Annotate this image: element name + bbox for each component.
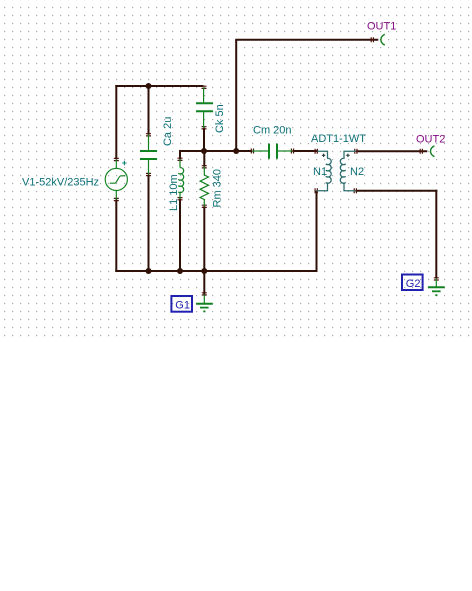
pin Cm right: [291, 149, 293, 154]
transformer winding N1: [316, 151, 331, 191]
wire Ca bottom: [148, 175, 150, 272]
svg-text:G1: G1: [175, 300, 190, 312]
wire Rm top: [203, 151, 205, 167]
pin G1: [202, 293, 207, 295]
ground G2: [428, 279, 445, 296]
wire Ca top: [148, 86, 150, 135]
wire N2 to OUT2: [356, 150, 427, 152]
pin Ca bottom: [146, 173, 151, 175]
node G2 box: [402, 275, 423, 291]
pin G2: [434, 278, 439, 280]
junction node mid rail / Ck / Rm: [201, 148, 207, 154]
svg-text:G2: G2: [406, 278, 421, 290]
wire top bus: [115, 85, 203, 87]
capacitor Cm: [252, 144, 292, 159]
pin ticks: [114, 37, 439, 295]
V1 plus mark: [122, 161, 126, 165]
svg-text:Cm 20n: Cm 20n: [253, 125, 292, 137]
wire to ground G1: [203, 271, 205, 295]
terminal OUT1: [381, 34, 385, 45]
wire Ck bottom: [203, 128, 205, 151]
pin OUT2: [420, 149, 422, 154]
junction node bottom rail / L1: [177, 268, 183, 274]
svg-text:N2: N2: [350, 166, 364, 178]
pin Ck bottom: [202, 127, 207, 129]
wire OUT1 vertical: [235, 40, 237, 151]
schematic grid background: [0, 0, 472, 338]
pin Ck top: [202, 86, 207, 88]
junction node bottom rail / Rm / G1: [201, 268, 207, 274]
pin OUT1: [371, 37, 373, 42]
svg-text:ADT1-1WT: ADT1-1WT: [311, 133, 366, 145]
pin Rm bottom: [202, 205, 207, 207]
transformer winding N2: [340, 151, 356, 191]
ground G1: [196, 295, 213, 312]
pin L1 top: [178, 158, 183, 160]
wire Cm to transformer: [293, 150, 319, 152]
resistor Rm: [200, 167, 208, 207]
svg-text:N1: N1: [313, 166, 327, 178]
capacitor Ck: [196, 87, 213, 128]
capacitor Ca: [140, 135, 157, 175]
transformer N1 polarity plus: [322, 154, 325, 157]
pin N1 bottom: [315, 188, 317, 193]
pin V1 top: [114, 158, 119, 160]
svg-text:V1-52kV/235Hz: V1-52kV/235Hz: [22, 177, 99, 189]
wire L1 top: [179, 150, 181, 159]
transformer N2 polarity plus: [346, 154, 349, 157]
pin V1 bottom: [114, 198, 119, 200]
junction node top bus / Ca: [146, 83, 152, 89]
wire V1 top vertical: [115, 85, 117, 159]
pin Cm left: [251, 149, 253, 154]
wire N1 bottom vertical: [316, 191, 318, 272]
wire L1 bottom: [179, 199, 181, 271]
svg-text:Rm 340: Rm 340: [212, 169, 224, 208]
svg-text:OUT2: OUT2: [416, 133, 445, 145]
wire OUT1 horizontal: [235, 39, 378, 41]
wire bottom rail: [115, 270, 317, 272]
voltage source V1: [105, 159, 127, 199]
junction node bottom rail / Ca: [146, 268, 152, 274]
wire Rm bottom: [203, 206, 205, 271]
wire V1 bottom vertical: [115, 200, 117, 273]
svg-text:Ca 2u: Ca 2u: [162, 117, 174, 146]
pin L1 bottom: [178, 198, 183, 200]
pin N2 bottom: [354, 188, 356, 193]
node G1 box: [171, 296, 192, 312]
pin N2 top: [355, 149, 357, 154]
svg-text:L1 10m: L1 10m: [168, 174, 180, 211]
pin N1 top: [315, 149, 317, 154]
pin Ca top: [146, 134, 151, 136]
svg-text:OUT1: OUT1: [367, 20, 396, 32]
svg-text:Ck 5n: Ck 5n: [214, 104, 226, 133]
inductor L1: [178, 159, 183, 198]
wire mid rail: [179, 150, 252, 152]
junction node mid rail / OUT1 branch: [233, 148, 239, 154]
pin Rm top: [202, 166, 207, 168]
wire to ground G2: [435, 190, 437, 279]
terminal OUT2: [431, 146, 435, 157]
wire N2 bottom horizontal: [356, 190, 438, 192]
